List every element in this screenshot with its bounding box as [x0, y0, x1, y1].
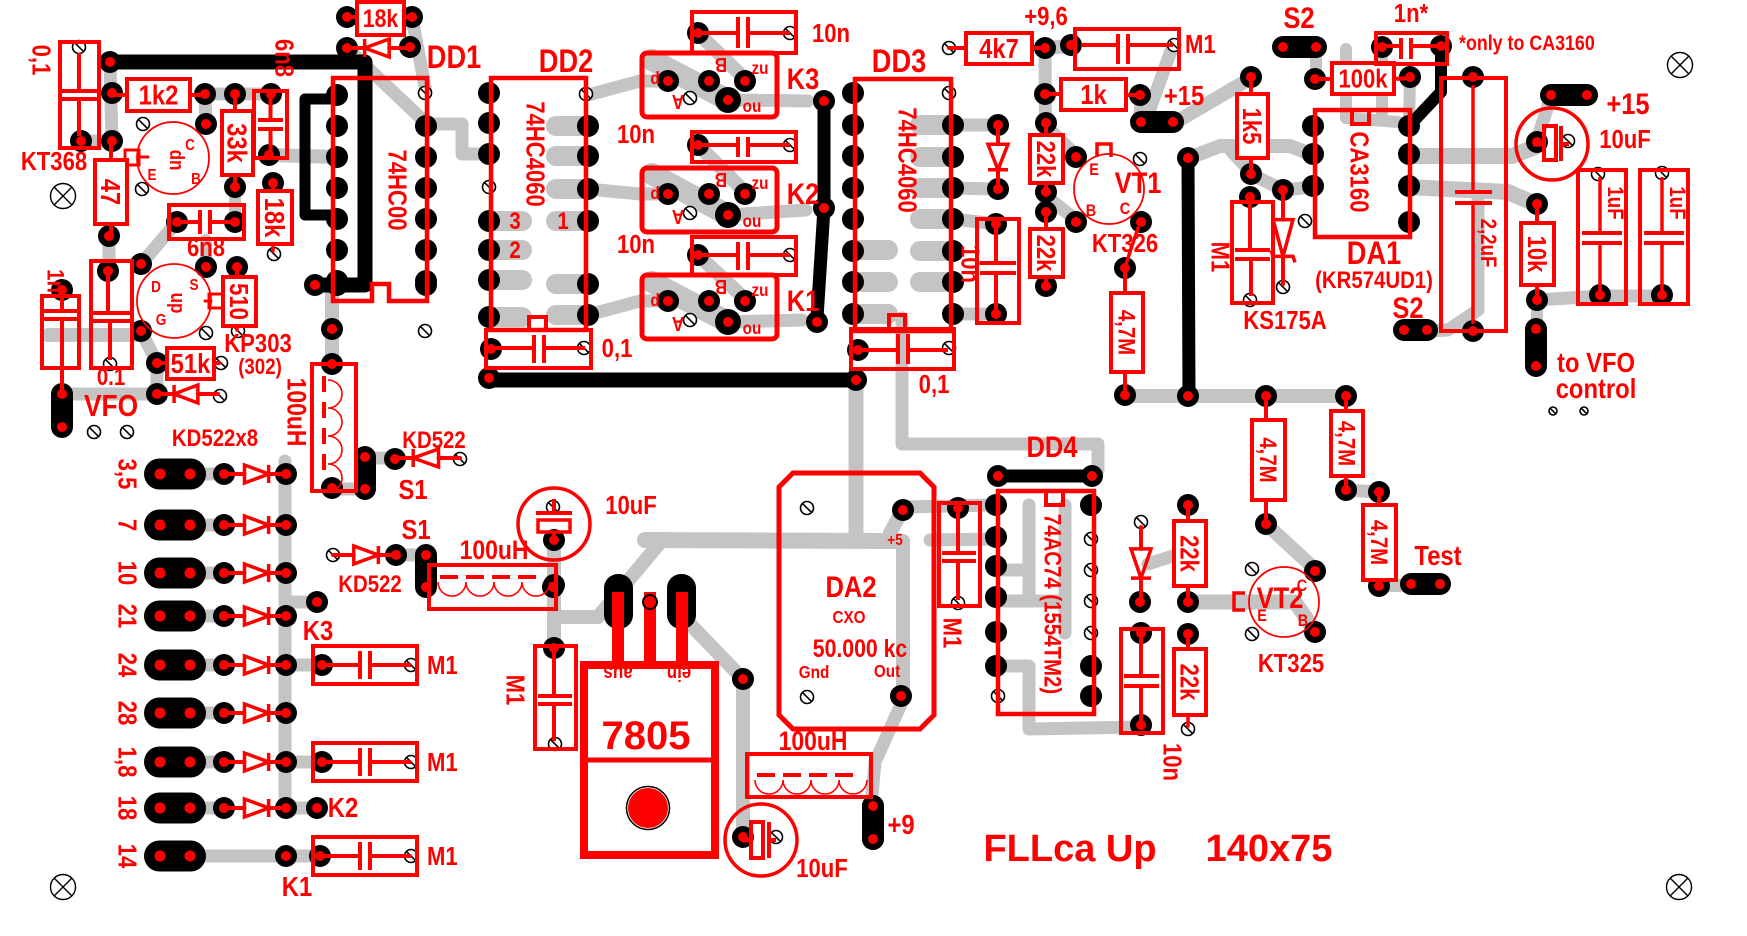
svg-text:D: D: [151, 279, 161, 296]
pad: [1302, 115, 1324, 137]
resistor 22k (4): [1174, 634, 1206, 726]
via: [784, 139, 797, 152]
capacitor C 10n (1): [692, 12, 850, 53]
pad: [1430, 35, 1452, 57]
wire: [857, 304, 888, 324]
pad: [1335, 385, 1357, 407]
diode VD KD522 (VFO): [157, 385, 218, 403]
wire: [652, 174, 724, 213]
resistor 51k: [157, 347, 219, 379]
resistor 4,7M (mid): [1111, 228, 1143, 395]
svg-text:1k: 1k: [1080, 78, 1107, 110]
pad: [146, 383, 168, 405]
resistor 33k: [221, 94, 253, 187]
pad: [166, 211, 188, 233]
pad: [144, 650, 206, 681]
via: [580, 88, 593, 101]
svg-text:6n8: 6n8: [187, 233, 225, 262]
pad: [275, 654, 297, 676]
svg-text:d: d: [650, 68, 659, 88]
wire: [996, 666, 1140, 729]
pad: [987, 178, 1009, 200]
wire: [279, 461, 292, 808]
svg-text:K2: K2: [328, 791, 358, 823]
pad: [1065, 146, 1087, 168]
via: [1085, 533, 1098, 546]
svg-text:0,1: 0,1: [919, 370, 950, 399]
wire: [365, 452, 396, 465]
svg-text:M1: M1: [500, 675, 529, 706]
svg-text:6n8: 6n8: [269, 39, 298, 77]
resistor 18k (top): [347, 2, 412, 35]
label K2: [328, 791, 358, 823]
pad: [415, 239, 437, 261]
wire: [1546, 90, 1592, 100]
capacitor C 10n (bottom right): [1121, 629, 1186, 781]
via: [121, 426, 134, 439]
svg-text:K2: K2: [787, 177, 820, 210]
pad: [326, 208, 348, 230]
wire: [1531, 324, 1541, 371]
capacitor C 1n*: [1376, 0, 1447, 64]
pad: [1034, 83, 1056, 105]
svg-text:(302): (302): [238, 356, 282, 380]
pad: [543, 529, 565, 551]
pad: [1304, 621, 1326, 643]
wire: [491, 270, 522, 290]
wire: [953, 119, 996, 132]
capacitor C 10n (3): [617, 230, 796, 275]
pad: [806, 311, 828, 333]
pad: [326, 270, 348, 292]
svg-text:10n: 10n: [812, 19, 850, 48]
pin label 14: [112, 844, 141, 869]
wire: [871, 700, 903, 806]
wire: [547, 538, 561, 650]
pad: [942, 208, 964, 230]
diode VD KD522 (row 3): [224, 564, 286, 582]
svg-text:K1: K1: [282, 870, 312, 902]
svg-text:140x75: 140x75: [1206, 828, 1333, 870]
pad: [144, 558, 206, 589]
pin label 10: [112, 561, 141, 586]
pad: [1371, 36, 1393, 58]
label FLLca Up: [983, 828, 1156, 870]
via: [137, 118, 150, 131]
pad: [1177, 591, 1199, 613]
label K3: [303, 614, 333, 646]
svg-text:Out: Out: [874, 661, 901, 681]
via: [1562, 135, 1575, 148]
pad: [1130, 714, 1152, 736]
via: [684, 314, 697, 327]
wire: [1407, 147, 1535, 156]
svg-text:4,7M: 4,7M: [1366, 520, 1393, 565]
pad: [195, 113, 217, 135]
wire: [857, 240, 888, 260]
pad: [1129, 591, 1151, 613]
resistor 4,7M (c): [1363, 492, 1396, 586]
pad: [144, 601, 206, 632]
label KD522x8: [172, 424, 258, 451]
label to VFO control: [1556, 346, 1637, 404]
wire: [556, 179, 586, 199]
pad: [97, 260, 119, 282]
wire: [1407, 187, 1533, 203]
via: [1168, 39, 1181, 52]
pad: [842, 271, 864, 293]
pad: [985, 655, 1007, 677]
svg-text:ou: ou: [743, 96, 762, 116]
wire: [652, 282, 724, 320]
pad: [1302, 175, 1324, 197]
pad: [1034, 37, 1056, 59]
svg-text:28: 28: [112, 701, 141, 726]
pad: [715, 202, 741, 228]
mounting hole: [51, 184, 76, 209]
pad: [1399, 66, 1421, 88]
pad: [577, 304, 599, 326]
pad: [478, 239, 500, 261]
svg-text:K1: K1: [787, 284, 820, 317]
pad: [657, 183, 679, 205]
pad: [687, 22, 709, 44]
pad: [842, 82, 864, 104]
svg-text:+9,6: +9,6: [1024, 2, 1068, 31]
via: [1244, 294, 1257, 307]
via: [419, 87, 432, 100]
wire: [1251, 174, 1313, 190]
pad: [842, 114, 864, 136]
pad: [1114, 257, 1136, 279]
wire: [103, 236, 116, 271]
pin label 28: [112, 701, 141, 726]
pad: [1081, 465, 1103, 487]
wire: [396, 549, 426, 562]
pad: [892, 499, 914, 521]
pad: [213, 463, 235, 485]
svg-text:d: d: [650, 290, 659, 310]
via: [1592, 168, 1605, 181]
svg-text:d: d: [650, 183, 659, 203]
wire: [229, 187, 241, 222]
pad: [311, 751, 333, 773]
pad: [687, 134, 709, 156]
svg-text:10uF: 10uF: [796, 854, 848, 883]
wire: [1232, 152, 1251, 172]
capacitor C 1n: [42, 269, 79, 392]
pin label 24: [112, 653, 141, 678]
pad: [942, 271, 964, 293]
svg-text:10: 10: [112, 561, 141, 586]
via: [547, 501, 560, 514]
pin label 1,8: [112, 747, 141, 778]
diode VD (top): [347, 39, 410, 57]
pad: [813, 197, 835, 219]
svg-text:M1: M1: [937, 618, 966, 649]
pad: [1302, 143, 1324, 165]
wire: [920, 272, 951, 292]
via: [405, 756, 418, 769]
label K1: [282, 870, 312, 902]
resistor 1k5: [1237, 77, 1268, 174]
wire: [920, 241, 951, 261]
svg-text:21: 21: [112, 604, 141, 629]
via: [405, 659, 418, 672]
pad: [715, 309, 741, 335]
diode VD KD522 (row 5): [224, 656, 286, 674]
svg-text:1n*: 1n*: [1394, 0, 1429, 28]
pad: [213, 514, 235, 536]
pad: [715, 87, 741, 113]
pad: [842, 145, 864, 167]
wire: [1310, 47, 1322, 79]
resistor 22k (1): [1030, 123, 1063, 192]
wire: [736, 679, 750, 837]
pad: [1130, 211, 1152, 233]
wire: [556, 116, 586, 136]
wire: [491, 211, 522, 231]
label +9: [887, 808, 914, 840]
pad: [734, 183, 756, 205]
via: [1135, 516, 1148, 529]
resistor 22k (3): [1174, 505, 1206, 602]
wire: [688, 622, 743, 679]
diode VD KD522 (row 1): [224, 465, 286, 483]
svg-text:S1: S1: [401, 513, 430, 545]
svg-text:10k: 10k: [1522, 236, 1551, 273]
wire: [1278, 42, 1321, 52]
svg-text:KS175A: KS175A: [1243, 306, 1326, 335]
via: [943, 87, 956, 100]
wire: [196, 802, 224, 815]
svg-text:4,7M: 4,7M: [1255, 437, 1282, 482]
pad: [734, 290, 756, 312]
pad: [275, 751, 297, 773]
via: [1085, 627, 1098, 640]
via: [578, 342, 591, 355]
capacitor C 6n8 (vertical): [254, 39, 298, 158]
diode VD (22k mid): [1131, 527, 1151, 600]
capacitor C M1 (row): [313, 743, 458, 781]
pad: [415, 270, 437, 292]
relay contact K3: [642, 53, 819, 117]
pad: [1335, 479, 1357, 501]
wire: [196, 468, 224, 481]
svg-text:10n: 10n: [1157, 743, 1186, 781]
svg-text:ou: ou: [743, 318, 762, 338]
svg-text:K3: K3: [303, 614, 333, 646]
svg-text:+15: +15: [1606, 87, 1649, 120]
svg-text:E: E: [1089, 161, 1099, 179]
pad: [1177, 623, 1199, 645]
via: [1246, 563, 1259, 576]
resistor 4,7M (a): [1252, 396, 1285, 524]
IC DA2 CXO: [779, 473, 934, 729]
pad: [813, 90, 835, 112]
svg-text:18k: 18k: [258, 198, 290, 238]
svg-text:22k: 22k: [1174, 535, 1203, 572]
wire: [1189, 602, 1313, 628]
wire: [491, 307, 522, 327]
via: [405, 850, 418, 863]
svg-text:50.000 kc: 50.000 kc: [813, 634, 908, 662]
wire: [1023, 505, 1036, 601]
pad: [1368, 575, 1390, 597]
IC DD4 74AC74: [998, 430, 1094, 714]
pad: [478, 306, 500, 328]
pad: [698, 290, 720, 312]
label 140x75: [1206, 828, 1333, 870]
pad: [385, 544, 407, 566]
wire: [905, 505, 996, 507]
pad: [213, 605, 235, 627]
svg-text:E: E: [147, 167, 156, 184]
pad: [309, 845, 331, 867]
pad: [734, 70, 756, 92]
resistor 18k (second): [258, 183, 292, 251]
via: [73, 41, 86, 54]
pad: [890, 685, 912, 707]
svg-text:DD4: DD4: [1027, 430, 1078, 463]
via: [770, 831, 783, 844]
svg-text:1n: 1n: [42, 269, 69, 293]
svg-text:1k5: 1k5: [1237, 108, 1266, 145]
svg-text:1,8: 1,8: [112, 747, 141, 778]
wire: [286, 659, 322, 672]
svg-text:ein: ein: [667, 662, 692, 685]
svg-text:1: 1: [557, 207, 568, 234]
wire: [698, 145, 745, 192]
diode VD KD522 (row 7): [224, 753, 286, 771]
pad: [1035, 181, 1057, 203]
transistor VT2 KT325: [1234, 567, 1324, 678]
capacitor C 10uF (right): [1516, 87, 1651, 180]
via: [943, 342, 956, 355]
diode VD KD522 (row 2): [224, 516, 286, 534]
wire: [1409, 46, 1441, 126]
pad: [224, 211, 246, 233]
wire: [588, 301, 640, 315]
svg-text:A: A: [672, 205, 684, 228]
pin label 3,5: [112, 459, 141, 490]
svg-text:VT1: VT1: [1115, 166, 1162, 199]
via: [992, 690, 1005, 703]
pad: [1114, 384, 1136, 406]
svg-text:DD1: DD1: [427, 40, 481, 76]
pad: [326, 146, 348, 168]
wire: [728, 210, 806, 215]
pad: [321, 353, 343, 375]
pad: [213, 797, 235, 819]
capacitor C 0.1: [91, 261, 132, 390]
capacitor C M1 (KS175A): [1205, 202, 1273, 303]
pad: [480, 338, 502, 360]
pad: [985, 586, 1007, 608]
pad: [1035, 112, 1057, 134]
pad: [862, 795, 884, 817]
pad: [478, 143, 500, 165]
pad: [260, 83, 282, 105]
pad: [1272, 179, 1294, 201]
wire: [996, 595, 1065, 608]
capacitor C M1 (DD4): [937, 503, 980, 648]
pad: [101, 130, 123, 152]
diode VD (DD3 right): [988, 125, 1008, 189]
via: [214, 390, 227, 403]
pad: [478, 112, 500, 134]
capacitor C M1 (7805): [500, 646, 576, 749]
svg-text:22k: 22k: [1174, 664, 1203, 701]
pad: [942, 146, 964, 168]
pad: [311, 654, 333, 676]
pad: [321, 318, 343, 340]
wire: [849, 380, 864, 538]
wire: [360, 452, 370, 494]
pad: [947, 497, 969, 519]
svg-text:B: B: [191, 171, 201, 188]
svg-text:10n: 10n: [617, 120, 655, 149]
via: [784, 249, 797, 262]
pad: [336, 6, 358, 28]
via: [684, 207, 697, 220]
pad: [542, 576, 564, 598]
wire: [890, 511, 902, 533]
pad: [985, 621, 1007, 643]
via: [483, 181, 496, 194]
svg-text:K3: K3: [787, 62, 820, 95]
wire: [196, 567, 224, 580]
pad: [1177, 385, 1199, 407]
via: [684, 92, 697, 105]
pad: [1398, 211, 1420, 233]
via: [943, 42, 956, 55]
transistor VT KP303: [137, 264, 292, 379]
mounting hole: [51, 875, 76, 900]
pad: [101, 82, 123, 104]
pad: [845, 369, 867, 391]
wire: [556, 211, 586, 231]
wire: [196, 610, 224, 623]
svg-text:M1: M1: [427, 651, 458, 680]
label +9,6: [1024, 2, 1068, 31]
pad: [478, 269, 500, 291]
svg-text:74AC74 (1554TM2): 74AC74 (1554TM2): [1039, 514, 1066, 694]
pad: [226, 256, 248, 278]
svg-text:10uF: 10uF: [605, 491, 657, 520]
svg-text:2,2uF: 2,2uF: [1476, 219, 1500, 268]
capacitor C 2,2uF: [1441, 78, 1506, 331]
pad: [399, 36, 421, 58]
svg-text:VFO: VFO: [84, 389, 138, 423]
pad: [942, 177, 964, 199]
pad: [985, 213, 1007, 235]
resistor 1k2: [112, 79, 205, 111]
svg-text:S2: S2: [1392, 291, 1423, 324]
pad: [657, 70, 679, 92]
pad: [195, 256, 217, 278]
svg-text:14: 14: [112, 844, 141, 869]
wire: [1134, 95, 1146, 121]
svg-text:10n: 10n: [955, 245, 984, 283]
capacitor C M1 (row): [313, 837, 458, 875]
pad: [415, 274, 437, 296]
wire: [269, 155, 337, 157]
svg-text:7: 7: [112, 519, 141, 531]
capacitor C 0,1 (DD2): [486, 330, 632, 368]
via: [1182, 723, 1195, 736]
via: [200, 327, 213, 340]
